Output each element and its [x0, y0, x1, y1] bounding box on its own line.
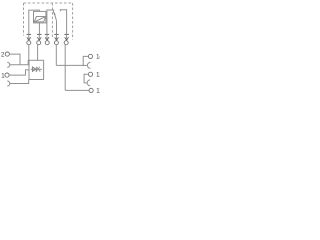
- wire terminal 1: [9, 70, 29, 75]
- relay coil K1 box: [34, 11, 46, 23]
- input circuit box: [29, 60, 44, 79]
- wire socket A to box: [10, 60, 29, 64]
- pin lines into sockets: [28, 34, 30, 40]
- LED cathode bar: [35, 67, 37, 72]
- terminal 11 circle: [89, 88, 93, 92]
- pin arrowheads: [27, 37, 69, 40]
- svg-text:14: 14: [96, 55, 100, 61]
- svg-text:12: 12: [96, 73, 100, 79]
- socket circles row: [27, 41, 68, 45]
- junction: [83, 65, 84, 66]
- svg-text:1: 1: [1, 73, 5, 79]
- contact blade: [54, 13, 56, 21]
- terminal 14 circle: [88, 54, 92, 58]
- wire terminal 2: [10, 54, 21, 65]
- svg-text:2: 2: [1, 52, 5, 58]
- wire pin A2 down to input box: [37, 45, 39, 61]
- pin crossbars: [27, 33, 69, 35]
- wire pin 14 down: [64, 45, 66, 91]
- COM contact wire (pin 11): [56, 21, 58, 35]
- NC fixed contact wire (pin 12): [47, 10, 54, 34]
- terminal 12 circle: [88, 72, 92, 76]
- socket arc R4: [87, 80, 90, 86]
- diode wire: [31, 68, 42, 70]
- branch to socket arc R2: [83, 64, 87, 66]
- svg-text:11: 11: [96, 89, 100, 95]
- NO fixed contact wire (pin 14): [60, 10, 66, 35]
- wire 11 feed across: [56, 64, 83, 66]
- wire socket B to box: [10, 80, 29, 84]
- blade arrowhead: [54, 13, 56, 15]
- branch up to terminal 14: [83, 56, 88, 65]
- wire pin 11 down: [55, 45, 57, 66]
- LED diode triangle: [32, 67, 36, 71]
- terminal 2 circle: [5, 52, 9, 56]
- plug socket arc A: [7, 62, 10, 67]
- socket arc R2: [87, 62, 90, 68]
- LED arrows: [36, 67, 40, 72]
- bridge bracket 12: [84, 74, 88, 83]
- coil symbol parallelogram: [34, 17, 46, 22]
- relay module dashed outline (coil compartment): [24, 3, 73, 40]
- wire coil top to pin A1: [29, 10, 40, 34]
- plug socket arc B: [7, 81, 10, 86]
- wire pin A1 down to input box: [28, 45, 30, 61]
- wire to terminal 11: [65, 89, 89, 91]
- wire coil bottom to pin A2: [38, 23, 40, 35]
- terminal 1 circle: [5, 73, 9, 77]
